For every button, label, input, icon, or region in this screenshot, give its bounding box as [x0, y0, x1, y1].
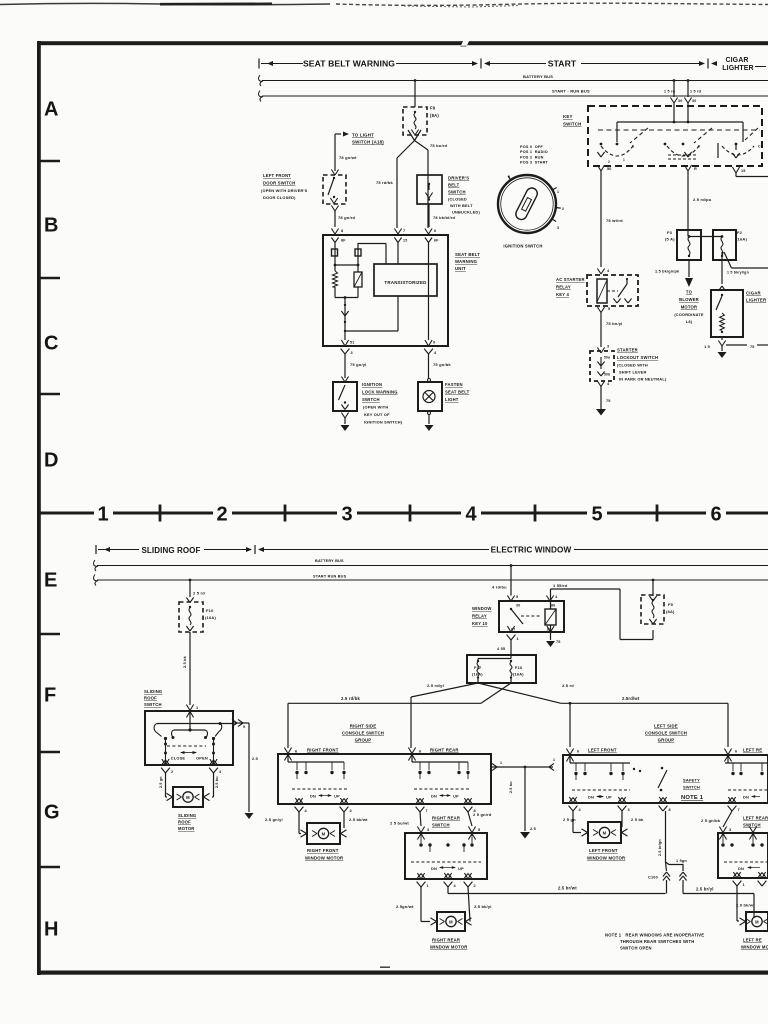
- svg-text:SLIDING ROOF: SLIDING ROOF: [142, 546, 201, 555]
- svg-text:1 5 bk/yl/gn: 1 5 bk/yl/gn: [727, 271, 749, 275]
- svg-text:2.5 rd/pu: 2.5 rd/pu: [693, 197, 712, 202]
- svg-text:2.5: 2.5: [530, 827, 536, 831]
- svg-text:(16A): (16A): [513, 672, 524, 677]
- svg-text:51: 51: [350, 341, 354, 345]
- svg-text:3: 3: [351, 351, 353, 355]
- svg-text:CONSOLE SWITCH: CONSOLE SWITCH: [645, 731, 687, 736]
- svg-text:50: 50: [607, 167, 612, 171]
- svg-text:1: 1: [500, 761, 502, 765]
- svg-text:STARTER: STARTER: [617, 348, 638, 353]
- svg-text:15: 15: [403, 239, 407, 243]
- svg-text:C: C: [758, 145, 761, 149]
- svg-text:(8A): (8A): [666, 609, 675, 614]
- svg-text:9: 9: [433, 341, 435, 345]
- svg-text:DN: DN: [431, 795, 437, 799]
- svg-text:GROUP: GROUP: [658, 738, 675, 743]
- svg-text:IGNITION: IGNITION: [362, 382, 382, 387]
- svg-text:6: 6: [735, 750, 737, 754]
- svg-text:6F: 6F: [434, 239, 439, 243]
- svg-text:5: 5: [608, 307, 610, 311]
- svg-text:1 5gn: 1 5gn: [676, 859, 687, 863]
- svg-text:(16A): (16A): [472, 672, 483, 677]
- svg-text:UNIT: UNIT: [455, 266, 466, 271]
- svg-text:F10: F10: [206, 608, 214, 613]
- svg-text:LIGHTER: LIGHTER: [746, 298, 767, 303]
- svg-text:UP: UP: [606, 796, 612, 800]
- svg-text:LEFT RE: LEFT RE: [743, 938, 762, 943]
- svg-text:3: 3: [350, 809, 352, 813]
- svg-text:UP: UP: [453, 795, 459, 799]
- svg-text:3: 3: [729, 828, 731, 832]
- svg-text:2.5rd/wt: 2.5rd/wt: [622, 696, 640, 701]
- svg-text:75 wt/rd: 75 wt/rd: [606, 218, 623, 223]
- svg-text:IN PARK OR NEUTRAL): IN PARK OR NEUTRAL): [619, 377, 667, 382]
- svg-text:75: 75: [556, 640, 561, 644]
- svg-text:TRANSISTORIZED: TRANSISTORIZED: [384, 280, 427, 285]
- svg-text:TO LIGHT: TO LIGHT: [352, 133, 374, 138]
- svg-text:F: F: [44, 685, 56, 707]
- svg-text:BELT: BELT: [448, 183, 460, 188]
- svg-text:SLIDING: SLIDING: [144, 689, 162, 694]
- svg-text:TO: TO: [686, 290, 693, 295]
- svg-text:2.5: 2.5: [252, 756, 259, 761]
- svg-text:2.5 br/gn: 2.5 br/gn: [658, 839, 662, 856]
- svg-text:1: 1: [196, 706, 198, 710]
- svg-text:START: START: [548, 59, 577, 69]
- svg-text:WINDOW MOTOR: WINDOW MOTOR: [430, 945, 467, 950]
- svg-text:WITH BELT: WITH BELT: [450, 203, 473, 208]
- svg-text:2 5 bu/wt: 2 5 bu/wt: [390, 821, 409, 826]
- svg-text:SWITCH: SWITCH: [448, 190, 466, 195]
- svg-text:6: 6: [295, 750, 297, 754]
- svg-text:6: 6: [577, 750, 579, 754]
- svg-text:SAFETY: SAFETY: [683, 778, 700, 783]
- svg-text:75 gn/yl: 75 gn/yl: [350, 362, 367, 367]
- svg-text:2: 2: [608, 160, 610, 164]
- svg-text:IGNITION SWITCH: IGNITION SWITCH: [503, 244, 542, 249]
- svg-text:DN: DN: [743, 796, 749, 800]
- svg-text:78 gn/wt: 78 gn/wt: [339, 155, 357, 160]
- svg-text:E: E: [44, 570, 57, 592]
- svg-text:RELAY: RELAY: [556, 285, 571, 290]
- svg-text:RIGHT REAR: RIGHT REAR: [432, 816, 460, 821]
- svg-text:DN: DN: [738, 867, 744, 871]
- svg-text:DOOR SWITCH: DOOR SWITCH: [263, 181, 295, 186]
- svg-text:3: 3: [557, 226, 559, 230]
- svg-text:F16: F16: [515, 665, 523, 670]
- svg-text:ELECTRIC WINDOW: ELECTRIC WINDOW: [491, 546, 572, 555]
- svg-text:4 rd/bu: 4 rd/bu: [492, 585, 507, 590]
- svg-text:BATTERY BUS: BATTERY BUS: [315, 559, 344, 563]
- svg-text:78 gn/rd: 78 gn/rd: [338, 215, 356, 220]
- svg-text:LEFT FRONT: LEFT FRONT: [588, 748, 617, 753]
- svg-text:G: G: [44, 802, 60, 824]
- svg-text:3: 3: [427, 828, 429, 832]
- svg-text:IGNITION SWITCH): IGNITION SWITCH): [364, 420, 403, 425]
- svg-text:D: D: [44, 450, 58, 472]
- svg-text:2: 2: [474, 884, 476, 888]
- svg-text:RIGHT REAR: RIGHT REAR: [430, 748, 459, 753]
- svg-text:A: A: [44, 99, 58, 121]
- svg-text:FASTEN: FASTEN: [445, 382, 463, 387]
- svg-text:75: 75: [606, 399, 611, 403]
- svg-text:MOTOR: MOTOR: [178, 826, 195, 831]
- svg-text:WINDOW: WINDOW: [472, 606, 492, 611]
- svg-text:75 rd/bk: 75 rd/bk: [376, 180, 394, 185]
- svg-text:C100: C100: [648, 876, 658, 880]
- svg-text:LEFT SIDE: LEFT SIDE: [654, 724, 678, 729]
- svg-text:SWITCH (A18): SWITCH (A18): [352, 140, 384, 145]
- svg-text:6: 6: [434, 229, 436, 233]
- svg-text:F17: F17: [474, 665, 481, 670]
- svg-text:1.5 bk/gn/pk: 1.5 bk/gn/pk: [655, 270, 680, 274]
- svg-text:7: 7: [426, 809, 428, 813]
- svg-text:0: 0: [632, 145, 634, 149]
- svg-text:BLOWER: BLOWER: [679, 297, 699, 302]
- svg-text:START RUN BUS: START RUN BUS: [313, 575, 347, 579]
- svg-text:75 bu/rd: 75 bu/rd: [430, 143, 448, 148]
- svg-text:2.5 gn: 2.5 gn: [159, 776, 163, 788]
- svg-text:UP: UP: [458, 867, 464, 871]
- svg-text:M: M: [322, 831, 326, 836]
- svg-text:1: 1: [97, 504, 108, 526]
- svg-text:OPEN: OPEN: [196, 756, 208, 761]
- svg-text:DOOR CLOSED): DOOR CLOSED): [263, 195, 296, 200]
- svg-text:30: 30: [678, 99, 682, 103]
- svg-text:(COORDINATE: (COORDINATE: [674, 312, 704, 317]
- svg-text:SWITCH: SWITCH: [362, 397, 380, 402]
- svg-text:POS 1 RADIO: POS 1 RADIO: [520, 150, 548, 154]
- svg-text:C: C: [44, 333, 58, 355]
- svg-text:M: M: [755, 919, 759, 924]
- svg-text:6: 6: [710, 504, 721, 526]
- svg-text:0: 0: [508, 175, 510, 179]
- svg-text:8F: 8F: [341, 239, 346, 243]
- svg-text:UNBUCKLED): UNBUCKLED): [452, 210, 480, 215]
- svg-text:30: 30: [692, 99, 696, 103]
- svg-text:RIGHT FRONT: RIGHT FRONT: [307, 748, 339, 753]
- svg-text:1: 1: [743, 883, 745, 887]
- svg-text:LEFT RE: LEFT RE: [743, 748, 762, 753]
- svg-text:SWITCH: SWITCH: [683, 785, 700, 790]
- svg-text:WINDOW MOTOR: WINDOW MOTOR: [305, 856, 344, 861]
- svg-text:4: 4: [465, 504, 477, 526]
- svg-text:SWITCH OPEN: SWITCH OPEN: [620, 946, 652, 951]
- svg-text:1 5 rd: 1 5 rd: [664, 90, 676, 94]
- svg-text:KEY: KEY: [563, 114, 573, 119]
- svg-text:B: B: [44, 215, 58, 237]
- svg-text:CIGAR: CIGAR: [746, 291, 762, 296]
- svg-text:2.5 br/wt: 2.5 br/wt: [558, 886, 577, 891]
- svg-text:SWITCH: SWITCH: [563, 122, 582, 127]
- svg-text:5: 5: [591, 504, 602, 526]
- svg-text:2.5gn/wt: 2.5gn/wt: [396, 904, 414, 909]
- svg-text:KEY OUT OF: KEY OUT OF: [364, 412, 390, 417]
- svg-text:SLIDING: SLIDING: [178, 813, 196, 818]
- svg-text:M: M: [186, 795, 190, 800]
- svg-text:7: 7: [403, 229, 405, 233]
- svg-text:WINDOW MOTOR: WINDOW MOTOR: [587, 856, 626, 861]
- svg-text:3: 3: [341, 504, 352, 526]
- svg-text:M: M: [449, 919, 453, 924]
- svg-text:ROOF: ROOF: [144, 696, 157, 701]
- svg-text:15: 15: [741, 169, 746, 173]
- svg-text:(8A): (8A): [430, 113, 439, 118]
- svg-text:2.5 rd: 2.5 rd: [562, 683, 574, 688]
- svg-text:F3: F3: [667, 230, 673, 235]
- svg-text:L8): L8): [686, 319, 693, 324]
- svg-text:4 55: 4 55: [497, 647, 505, 651]
- svg-text:2.5 br/yl: 2.5 br/yl: [696, 887, 714, 892]
- svg-text:3: 3: [607, 345, 609, 349]
- svg-text:GROUP: GROUP: [355, 738, 372, 743]
- svg-text:DN: DN: [431, 867, 437, 871]
- svg-text:50b: 50b: [604, 373, 610, 377]
- svg-text:LEFT FRONT: LEFT FRONT: [263, 173, 291, 178]
- svg-text:SWITCH: SWITCH: [432, 823, 450, 828]
- svg-text:MOTOR: MOTOR: [681, 305, 698, 310]
- svg-text:1: 1: [553, 758, 555, 762]
- svg-text:M: M: [603, 830, 607, 835]
- svg-text:SEAT BELT: SEAT BELT: [445, 390, 470, 395]
- svg-text:KEY 4: KEY 4: [556, 292, 569, 297]
- svg-text:1: 1: [427, 884, 429, 888]
- svg-text:RIGHT REAR: RIGHT REAR: [432, 938, 460, 943]
- svg-text:(16A): (16A): [205, 615, 216, 620]
- svg-text:CONSOLE SWITCH: CONSOLE SWITCH: [342, 731, 384, 736]
- svg-text:POS 2 RUN: POS 2 RUN: [520, 155, 544, 159]
- svg-text:R: R: [694, 167, 697, 171]
- svg-text:2.5 rd/bk: 2.5 rd/bk: [341, 696, 360, 701]
- svg-text:LEFT FRONT: LEFT FRONT: [589, 848, 618, 853]
- svg-text:2 5 gn/rd: 2 5 gn/rd: [473, 812, 492, 817]
- svg-text:8: 8: [669, 808, 671, 812]
- svg-text:DN: DN: [588, 796, 594, 800]
- svg-text:5: 5: [516, 595, 518, 599]
- svg-text:START - RUN BUS: START - RUN BUS: [552, 89, 590, 94]
- svg-text:RELAY: RELAY: [472, 614, 487, 619]
- svg-text:75: 75: [750, 345, 755, 349]
- svg-text:2.5 bk/wt: 2.5 bk/wt: [349, 817, 368, 822]
- svg-text:0: 0: [698, 145, 700, 149]
- svg-text:POS 3 START: POS 3 START: [520, 161, 549, 165]
- svg-text:THROUGH REAR SWITCHES WITH: THROUGH REAR SWITCHES WITH: [620, 939, 695, 944]
- svg-text:SWITCH: SWITCH: [743, 823, 761, 828]
- svg-text:RIGHT FRONT: RIGHT FRONT: [307, 848, 339, 853]
- svg-text:DRIVER'S: DRIVER'S: [448, 176, 469, 181]
- svg-text:ROOF: ROOF: [178, 820, 191, 825]
- svg-text:POS 0 OFF: POS 0 OFF: [520, 145, 543, 149]
- svg-text:LOCK WARNING: LOCK WARNING: [362, 390, 398, 395]
- svg-text:LOCKOUT SWITCH: LOCKOUT SWITCH: [617, 355, 658, 360]
- svg-text:(16A): (16A): [736, 237, 747, 242]
- svg-text:1: 1: [557, 190, 559, 194]
- svg-text:LEFT REAR: LEFT REAR: [743, 816, 768, 821]
- svg-text:6: 6: [419, 750, 421, 754]
- svg-text:1: 1: [517, 637, 519, 641]
- svg-text:NOTE 1 REAR WINDOWS ARE INOP: NOTE 1 REAR WINDOWS ARE INOPERATIVE: [605, 933, 704, 938]
- svg-text:8: 8: [341, 229, 343, 233]
- svg-text:UP: UP: [334, 795, 340, 799]
- svg-text:2.5 bu: 2.5 bu: [509, 781, 513, 793]
- svg-text:2 5 bk: 2 5 bk: [631, 817, 644, 822]
- svg-text:F2: F2: [737, 230, 743, 235]
- svg-text:1 5: 1 5: [704, 345, 710, 349]
- svg-text:KEY 10: KEY 10: [472, 621, 488, 626]
- svg-text:2 5 rd: 2 5 rd: [193, 591, 205, 596]
- svg-text:RIGHT SIDE: RIGHT SIDE: [350, 724, 377, 729]
- svg-text:2.5 rd/yl: 2.5 rd/yl: [427, 683, 444, 688]
- svg-text:2.5 gn/yl: 2.5 gn/yl: [265, 817, 283, 822]
- svg-text:2 5 gn: 2 5 gn: [563, 817, 576, 822]
- svg-text:LIGHTER: LIGHTER: [722, 65, 753, 72]
- svg-text:H: H: [44, 919, 58, 941]
- svg-text:1: 1: [623, 158, 625, 162]
- svg-text:7: 7: [738, 808, 740, 812]
- svg-text:AC STARTER: AC STARTER: [556, 277, 585, 282]
- svg-text:WINDOW MO: WINDOW MO: [741, 945, 768, 950]
- svg-text:(CLOSED: (CLOSED: [448, 197, 467, 202]
- svg-text:(CLOSED WITH: (CLOSED WITH: [617, 363, 648, 368]
- svg-text:30: 30: [516, 604, 520, 608]
- svg-text:2: 2: [216, 504, 227, 526]
- svg-text:1 55/rd: 1 55/rd: [553, 583, 568, 588]
- svg-text:2 5 gn/bk: 2 5 gn/bk: [701, 818, 721, 823]
- svg-text:5: 5: [478, 828, 480, 832]
- svg-text:LIGHT: LIGHT: [445, 397, 459, 402]
- svg-text:1 5 rd: 1 5 rd: [690, 90, 702, 94]
- svg-text:78 bk/bl/rd: 78 bk/bl/rd: [433, 215, 456, 220]
- svg-text:WARNING: WARNING: [455, 259, 478, 264]
- svg-text:2.5 bk: 2.5 bk: [183, 655, 187, 668]
- svg-text:F9: F9: [430, 106, 436, 111]
- svg-text:75 bn/yl: 75 bn/yl: [606, 321, 623, 326]
- svg-text:NOTE 1: NOTE 1: [681, 795, 704, 801]
- svg-text:F5: F5: [668, 602, 674, 607]
- svg-text:2: 2: [562, 207, 564, 211]
- svg-text:86: 86: [551, 604, 555, 608]
- svg-text:2.9 bk/wt: 2.9 bk/wt: [736, 903, 755, 908]
- svg-text:9: 9: [243, 725, 245, 729]
- svg-text:(OPEN WITH: (OPEN WITH: [363, 405, 388, 410]
- svg-text:2.5 bu: 2.5 bu: [215, 776, 219, 788]
- svg-text:(OPEN WITH DRIVER'S: (OPEN WITH DRIVER'S: [261, 188, 308, 193]
- svg-text:CIGAR: CIGAR: [725, 57, 748, 64]
- svg-text:SWITCH: SWITCH: [144, 702, 162, 707]
- svg-text:SHIFT LEVER: SHIFT LEVER: [619, 370, 647, 375]
- svg-text:3: 3: [628, 808, 630, 812]
- svg-text:2.5 bk/yl: 2.5 bk/yl: [474, 904, 492, 909]
- svg-text:50a: 50a: [604, 356, 610, 360]
- svg-text:DN: DN: [310, 795, 316, 799]
- svg-text:(5 A): (5 A): [665, 237, 675, 242]
- svg-text:SEAT BELT: SEAT BELT: [455, 252, 480, 257]
- svg-text:BATTERY BUS: BATTERY BUS: [523, 74, 553, 79]
- svg-text:2: 2: [171, 770, 173, 774]
- svg-text:CLOSE: CLOSE: [171, 756, 186, 761]
- svg-text:75 gn/bk: 75 gn/bk: [433, 362, 451, 367]
- svg-text:SEAT BELT WARNING: SEAT BELT WARNING: [303, 59, 395, 69]
